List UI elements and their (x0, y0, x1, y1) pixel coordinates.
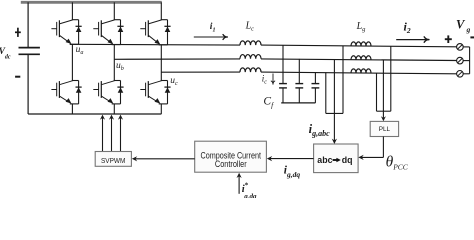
svg-text:Cf: Cf (263, 96, 274, 110)
wire grid neutral bus (469, 47, 471, 74)
AC source Vg phase b (457, 57, 470, 64)
svg-text:uc: uc (170, 76, 178, 87)
wire tap ig phase c (325, 72, 327, 113)
wire tap ig merge bar (326, 112, 343, 114)
wire tap vpcc phase a (390, 46, 392, 111)
wire Cf neutral bus (281, 102, 315, 104)
svg-text:abc: abc (317, 155, 332, 165)
diode D5 (159, 20, 171, 45)
block PLL (370, 121, 398, 136)
wire PLL theta output (382, 137, 384, 158)
svg-text:i*g,dq: i*g,dq (242, 182, 257, 199)
wire leg 1 emitter to bottom rail (71, 104, 73, 114)
arrow ic (272, 74, 274, 84)
arrow vpcc to PLL (382, 111, 384, 118)
inductor Lg phase a (351, 42, 371, 46)
svg-text:PLL: PLL (379, 126, 391, 133)
arrow i2 (396, 39, 428, 41)
AC source Vg phase c (457, 71, 470, 78)
arrow i1 (194, 36, 227, 38)
transistor Q1 (51, 20, 72, 44)
wire tap vpcc merge bar (377, 110, 391, 112)
wire tap ig phase a (342, 46, 344, 114)
inductor Lg phase c (351, 69, 371, 73)
label - (grid) (470, 36, 474, 38)
arrow controller to SVPWM (135, 158, 195, 160)
capacitor Cf2 (295, 59, 303, 103)
wire tap vpcc phase b (382, 60, 384, 111)
svg-text:ig,abc: ig,abc (309, 122, 330, 138)
svg-text:ic: ic (262, 74, 268, 86)
arrow reference current into controller (238, 176, 240, 194)
svg-text:θPCC: θPCC (386, 153, 409, 171)
wire leg 2 midpoint vertical (113, 45, 115, 81)
wire leg 2 collector from top rail (113, 2, 115, 19)
block SVPWM (95, 152, 131, 167)
transistor Q3 (93, 20, 114, 44)
svg-text:Vg: Vg (456, 17, 471, 34)
capacitor DC-link (19, 47, 40, 49)
inductor Lc phase b (240, 55, 261, 59)
transistor Q5 (140, 20, 161, 45)
arrow abc-dq to controller (270, 158, 314, 160)
wire leg 2 emitter to bottom rail (113, 104, 115, 114)
inductor Lg phase b (351, 56, 371, 60)
wire top DC rail (21, 1, 162, 4)
svg-text:i2: i2 (404, 20, 411, 35)
svg-text:ua: ua (76, 45, 84, 56)
transistor Q4 (93, 81, 114, 104)
svg-text:ub: ub (116, 61, 124, 72)
wire phase c line (161, 71, 240, 73)
wire leg 1 collector from top rail (71, 2, 73, 19)
svg-text:SVPWM: SVPWM (101, 158, 126, 165)
label - (DC negative) (15, 76, 20, 78)
wire phase a line (70, 43, 240, 46)
block abc-dq (314, 144, 359, 173)
arrow gate signal 1 (102, 118, 104, 152)
diode D6 (159, 81, 171, 104)
diode D1 (70, 20, 82, 45)
diode D4 (112, 81, 124, 104)
arrow ig.abc to abc-dq (333, 113, 335, 140)
transistor Q6 (140, 81, 161, 104)
capacitor Cf1 (279, 45, 287, 103)
arrow gate signal 2 (111, 118, 113, 152)
wire leg 1 midpoint vertical (71, 44, 73, 80)
svg-text:dq: dq (342, 155, 353, 165)
diode D3 (112, 20, 124, 45)
wire tap ig phase b (333, 59, 335, 113)
svg-text:i1: i1 (210, 22, 216, 33)
svg-text:Lg: Lg (356, 21, 367, 33)
capacitor Cf3 (312, 73, 320, 103)
AC source Vg phase a (457, 44, 470, 51)
wire leg 3 collector from top rail (160, 2, 162, 19)
node DC+ bus vertical (27, 2, 29, 47)
label + (grid) (445, 35, 452, 43)
wire bottom DC rail (28, 113, 161, 115)
label + (DC positive) (15, 28, 21, 37)
inductor Lc phase a (240, 41, 261, 45)
svg-text:ig,dq: ig,dq (284, 165, 301, 179)
diode D2 (70, 81, 82, 104)
wire phase b line (114, 58, 240, 60)
wire leg 3 emitter to bottom rail (160, 104, 162, 114)
svg-text:Controller: Controller (215, 159, 247, 169)
wire tap vpcc phase c (376, 73, 378, 111)
arrow theta into abc-dq (358, 155, 363, 160)
wire leg 3 midpoint vertical (160, 45, 162, 81)
inductor Lc phase c (240, 68, 261, 72)
block Composite Current Controller (195, 141, 267, 172)
svg-text:Vdc: Vdc (0, 46, 11, 60)
transistor Q2 (51, 81, 72, 104)
svg-text:Lc: Lc (245, 20, 255, 32)
arrow gate signal 3 (120, 118, 122, 152)
